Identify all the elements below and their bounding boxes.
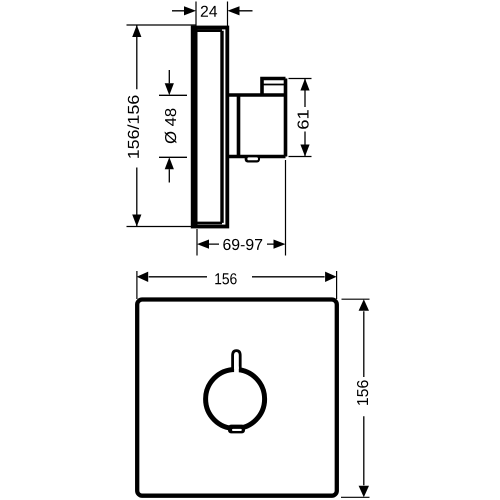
knob bottom tab front view: [228, 425, 245, 434]
knob cap inner line: [262, 84, 286, 86]
dimension 156 (right) arrows: [359, 299, 369, 311]
dimension 61 line: [304, 79, 306, 157]
dimension 61 extension lines: [289, 79, 312, 157]
knob pin (top marker) front view: [233, 351, 241, 369]
dimension 156 (right) line: [363, 311, 365, 485]
dimension 24 arrows and tails: [172, 10, 253, 12]
knob cap side view: [262, 79, 286, 96]
dimension 61 arrows: [300, 79, 309, 91]
dimension 24 extension lines: [196, 2, 228, 27]
dimension 156/156 label: [127, 95, 139, 157]
escutcheon square front view: [137, 300, 337, 496]
dimension 156/156 extension lines: [127, 25, 197, 227]
plate side view outer rect: [193, 28, 228, 227]
dimension 156/156 arrows: [132, 25, 141, 37]
dimension 24 label: [201, 6, 217, 17]
dimension 61 label: [298, 110, 309, 129]
dimension 69-97 extension lines: [197, 160, 286, 256]
dimension 156 (top) extension lines: [137, 271, 337, 299]
dimension D48 ticks: [159, 95, 187, 157]
dimension 156 (right) extension lines: [341, 299, 370, 497]
dimension 156 (top) line: [149, 276, 325, 278]
dimension 156 (top) arrows: [137, 272, 149, 282]
dimension 156 (right) label: [357, 380, 368, 405]
knob circle front view: [206, 370, 265, 429]
dimension D48 arrows and tails: [168, 70, 170, 183]
dimension 69-97 line: [209, 243, 274, 245]
dimension D48 label: [165, 109, 177, 144]
dimension 156 (top) label: [215, 273, 236, 284]
dimension 156/156 line: [136, 25, 138, 227]
dimension 69-97 arrows: [197, 240, 209, 249]
plate side view inner lines: [193, 29, 198, 225]
knob bottom clip (side view): [245, 155, 260, 162]
dimension 69-97 label: [223, 239, 262, 250]
knob body side view: [228, 79, 286, 157]
